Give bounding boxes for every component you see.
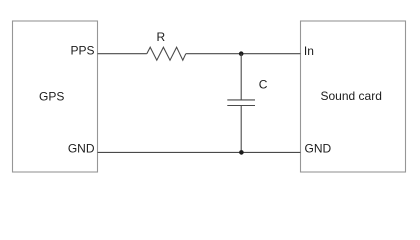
- node junction top: [239, 51, 244, 56]
- svg-text:GPS: GPS: [39, 90, 64, 104]
- wire resistor to In: [186, 53, 301, 55]
- svg-text:GND: GND: [68, 142, 95, 156]
- wire GND rail: [98, 151, 301, 153]
- svg-text:Sound card: Sound card: [321, 89, 382, 103]
- node junction bottom: [239, 150, 244, 155]
- svg-text:GND: GND: [305, 142, 332, 156]
- svg-text:PPS: PPS: [70, 44, 94, 58]
- Sound card box U2: [301, 21, 406, 172]
- svg-text:C: C: [259, 78, 268, 92]
- capacitor C plate 2: [227, 105, 255, 107]
- wire capacitor to ground rail: [240, 106, 242, 153]
- GPS box: [13, 21, 98, 172]
- resistor R: [147, 47, 186, 60]
- svg-text:In: In: [304, 44, 314, 58]
- capacitor C plate 1: [227, 99, 255, 101]
- wire junction to capacitor: [240, 54, 242, 100]
- svg-text:R: R: [157, 30, 166, 44]
- wire PPS to resistor: [98, 53, 147, 55]
